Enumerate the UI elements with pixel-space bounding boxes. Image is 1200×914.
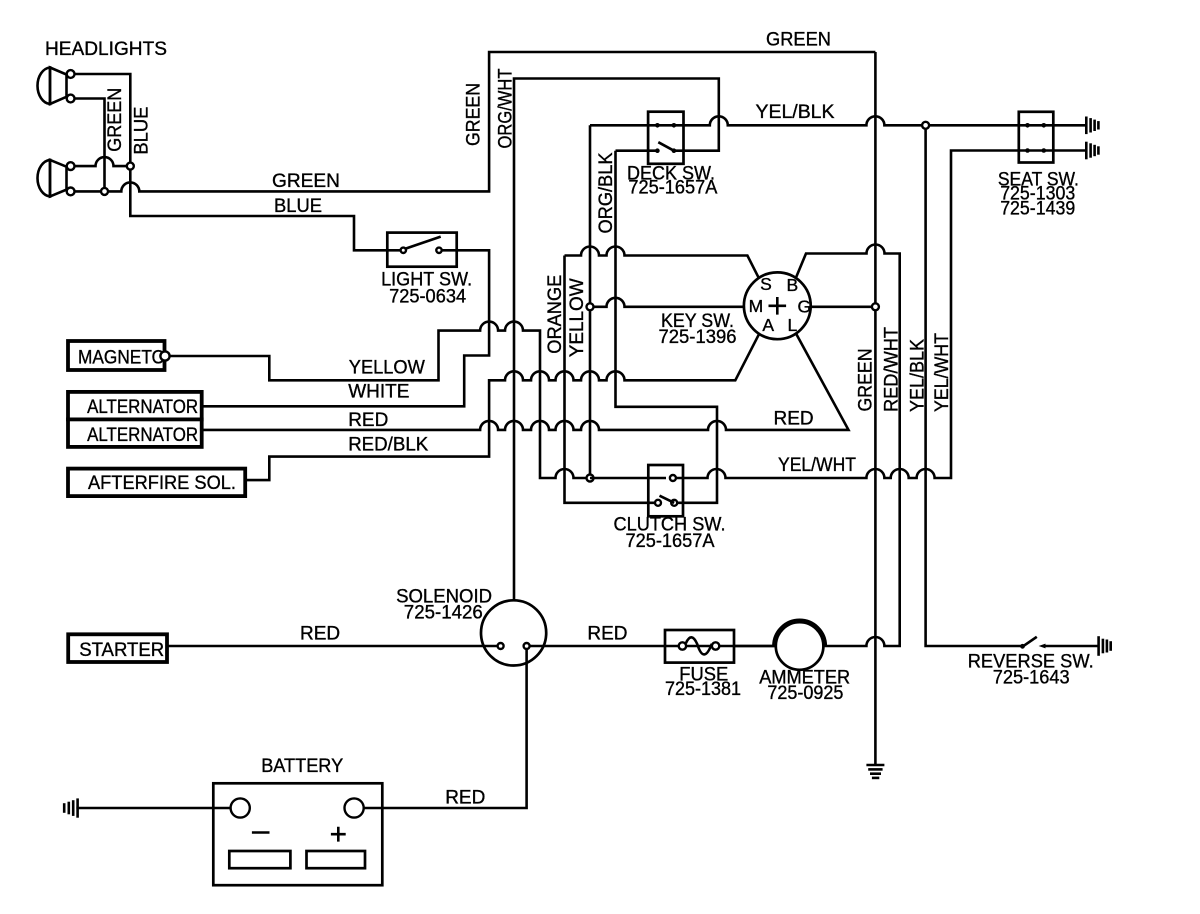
svg-text:GREEN: GREEN — [856, 349, 877, 412]
component FUSE box — [665, 630, 734, 663]
wire RED: starter to solenoid — [168, 645, 498, 648]
connector (reverse) — [1099, 636, 1111, 656]
node: junction green bus / G line — [872, 303, 879, 310]
deck switch contacts top — [655, 123, 660, 128]
switch DECK SW. box — [648, 112, 683, 164]
headlight lamp 2 body — [50, 160, 67, 197]
wire RED/WHT: ammeter to key B (riser, hop, diagonal) — [796, 245, 900, 647]
fuse right terminal — [712, 642, 719, 649]
switch LIGHT SW. box — [387, 233, 456, 267]
component AFTERFIRE SOL. box — [68, 469, 245, 497]
wire RED/BLK: afterfire sol. to key switch A (hops) — [245, 333, 759, 480]
component BATTERY box — [213, 783, 382, 885]
svg-text:725-0925: 725-0925 — [767, 683, 843, 704]
component MAGNETO box — [68, 341, 165, 370]
svg-text:725-1439: 725-1439 — [1000, 199, 1075, 220]
wire YEL/WHT: clutch top to seat switch bottom (hops, riser) — [676, 151, 1086, 479]
svg-text:725-0634: 725-0634 — [389, 287, 466, 308]
deck switch lever — [658, 142, 674, 151]
svg-text:RED: RED — [445, 788, 485, 809]
component STARTER box — [68, 634, 167, 662]
svg-text:725-1381: 725-1381 — [665, 679, 741, 700]
svg-text:725-1657A: 725-1657A — [626, 531, 715, 552]
headlight 1 terminal pin top — [67, 70, 75, 78]
wire G line: key G to green bus — [811, 305, 876, 308]
svg-text:YEL/BLK: YEL/BLK — [756, 102, 835, 123]
wire YEL/BLK vertical and reverse switch feed — [926, 125, 1022, 646]
component ALTERNATOR box 1 — [68, 392, 202, 420]
svg-text:725-1643: 725-1643 — [993, 668, 1070, 689]
svg-text:M: M — [749, 296, 764, 316]
clutch top contact — [670, 475, 676, 481]
wire YELLOW bus vertical — [589, 125, 592, 478]
battery negative terminal — [231, 798, 250, 817]
svg-text:GREEN: GREEN — [105, 88, 126, 152]
svg-text:YEL/WHT: YEL/WHT — [932, 333, 953, 412]
node: junction yellow bus / clutch wire — [587, 475, 594, 482]
svg-text:AFTERFIRE SOL.: AFTERFIRE SOL. — [88, 473, 236, 494]
component AMMETER circle — [776, 622, 824, 670]
svg-text:ORANGE: ORANGE — [545, 275, 566, 354]
svg-text:S: S — [760, 274, 772, 294]
connector (seat bottom) — [1086, 142, 1098, 160]
svg-text:ALTERNATOR: ALTERNATOR — [87, 425, 198, 446]
wire YELLOW: magneto to clutch junction (hops, riser down) — [170, 322, 587, 478]
svg-text:HEADLIGHTS: HEADLIGHTS — [45, 39, 167, 60]
headlight lamp 1 dish — [37, 68, 50, 105]
wire: fuse to ammeter — [734, 645, 776, 648]
solenoid right contact — [524, 643, 530, 649]
headlight 1 terminal pin bottom — [67, 95, 75, 103]
node: junction yel/blk top — [922, 122, 929, 129]
deck switch contacts bottom — [655, 148, 660, 153]
wire WHITE: light switch out, jog, to alternator — [202, 250, 489, 406]
wire: chassis to battery negative — [76, 807, 230, 810]
wire GREEN vertical bus to ground — [874, 52, 877, 765]
component ALTERNATOR box 2 — [68, 419, 202, 447]
headlight lamp 2 dish — [37, 160, 50, 197]
clutch lever — [660, 496, 675, 503]
svg-text:RED: RED — [348, 410, 388, 431]
svg-text:GREEN: GREEN — [272, 171, 340, 192]
svg-text:ORG/BLK: ORG/BLK — [596, 152, 617, 233]
seat switch contacts — [1025, 123, 1030, 128]
svg-text:RED/BLK: RED/BLK — [348, 435, 428, 456]
svg-text:GREEN: GREEN — [464, 83, 485, 146]
battery plus sign — [331, 827, 346, 842]
headlight lamp 1 body — [50, 68, 67, 105]
wire GREEN main: headlight2 bottom, hop blue, to right riser and top run — [75, 52, 876, 191]
svg-text:MAGNETO: MAGNETO — [78, 348, 165, 369]
svg-text:WHITE: WHITE — [348, 382, 409, 403]
reverse switch arrowhead — [1020, 644, 1025, 649]
solenoid left contact — [498, 643, 504, 649]
svg-text:GREEN: GREEN — [766, 30, 831, 51]
fuse left terminal — [679, 642, 686, 649]
wire RED: alternator to key switch L diagonal (hops) — [202, 333, 849, 430]
key switch center cross — [769, 297, 787, 315]
headlight 2 terminal pin top — [67, 162, 75, 170]
svg-text:725-1396: 725-1396 — [659, 327, 737, 348]
svg-text:YELLOW: YELLOW — [567, 278, 588, 357]
switch CLUTCH SW. box — [648, 465, 683, 516]
wire GREEN drop: headlight1 bottom to green junction — [75, 99, 105, 192]
magneto terminal — [160, 351, 169, 360]
connector (seat top) — [1086, 117, 1098, 135]
wire YEL/BLK top: deck switch row to seat switch and connector — [590, 116, 1086, 125]
svg-text:YELLOW: YELLOW — [349, 358, 425, 379]
component SOLENOID circle — [481, 600, 546, 665]
light switch lever — [405, 237, 441, 249]
wire ORG/BLK: deck lower-left riser, jog, to clutch lower right — [616, 151, 718, 503]
battery plate left — [229, 851, 290, 868]
clutch bottom contacts — [655, 500, 661, 506]
switch REVERSE SW. lever — [1023, 637, 1037, 647]
svg-text:RED: RED — [774, 409, 814, 430]
svg-text:BATTERY: BATTERY — [261, 756, 343, 777]
headlight 2 terminal pin bottom — [67, 188, 75, 196]
ammeter top cap arc — [773, 620, 825, 646]
svg-text:YEL/BLK: YEL/BLK — [908, 339, 929, 412]
svg-text:G: G — [797, 297, 811, 317]
ground symbol (green bus) — [866, 765, 884, 778]
switch KEY SW. circle — [744, 272, 811, 339]
switch SEAT SW. box — [1019, 112, 1054, 163]
svg-text:BLUE: BLUE — [274, 196, 322, 217]
node: junction yellow bus / M line — [587, 303, 594, 310]
battery plate right — [307, 851, 366, 868]
wire: headlight2 top to blue junction (hop over green) — [75, 157, 131, 166]
wire RED: battery positive to solenoid — [364, 649, 527, 808]
svg-text:BLUE: BLUE — [132, 107, 153, 155]
svg-text:RED/WHT: RED/WHT — [882, 327, 903, 412]
wire BLUE: headlight1 top to light switch — [75, 74, 401, 250]
battery positive terminal — [345, 798, 364, 817]
wire RED: solenoid to fuse — [530, 645, 776, 648]
svg-text:725-1426: 725-1426 — [404, 603, 483, 624]
battery minus sign — [252, 831, 270, 834]
node: junction on green vertical — [101, 188, 108, 195]
svg-text:A: A — [762, 315, 774, 335]
light switch right contact — [436, 248, 441, 253]
wire ORG/WHT: solenoid top to deck switch lower right — [514, 79, 719, 601]
wire clutch top row from yellow junction — [590, 477, 666, 480]
svg-text:RED: RED — [587, 624, 627, 645]
svg-text:RED: RED — [300, 624, 340, 645]
fuse element curve — [686, 637, 712, 654]
node: junction on blue vertical — [127, 163, 134, 170]
wire reverse switch to connector — [1044, 645, 1098, 648]
wire M line: yellow bus to key M — [590, 298, 744, 307]
svg-text:725-1657A: 725-1657A — [628, 178, 717, 199]
light switch left contact — [401, 248, 406, 253]
svg-text:STARTER: STARTER — [79, 640, 164, 661]
svg-text:L: L — [788, 315, 798, 335]
svg-text:ALTERNATOR: ALTERNATOR — [87, 397, 198, 418]
connector (battery ground) — [64, 798, 77, 817]
wire ORANGE: key S line and riser to clutch lower left — [565, 247, 760, 503]
svg-text:YEL/WHT: YEL/WHT — [778, 455, 856, 476]
